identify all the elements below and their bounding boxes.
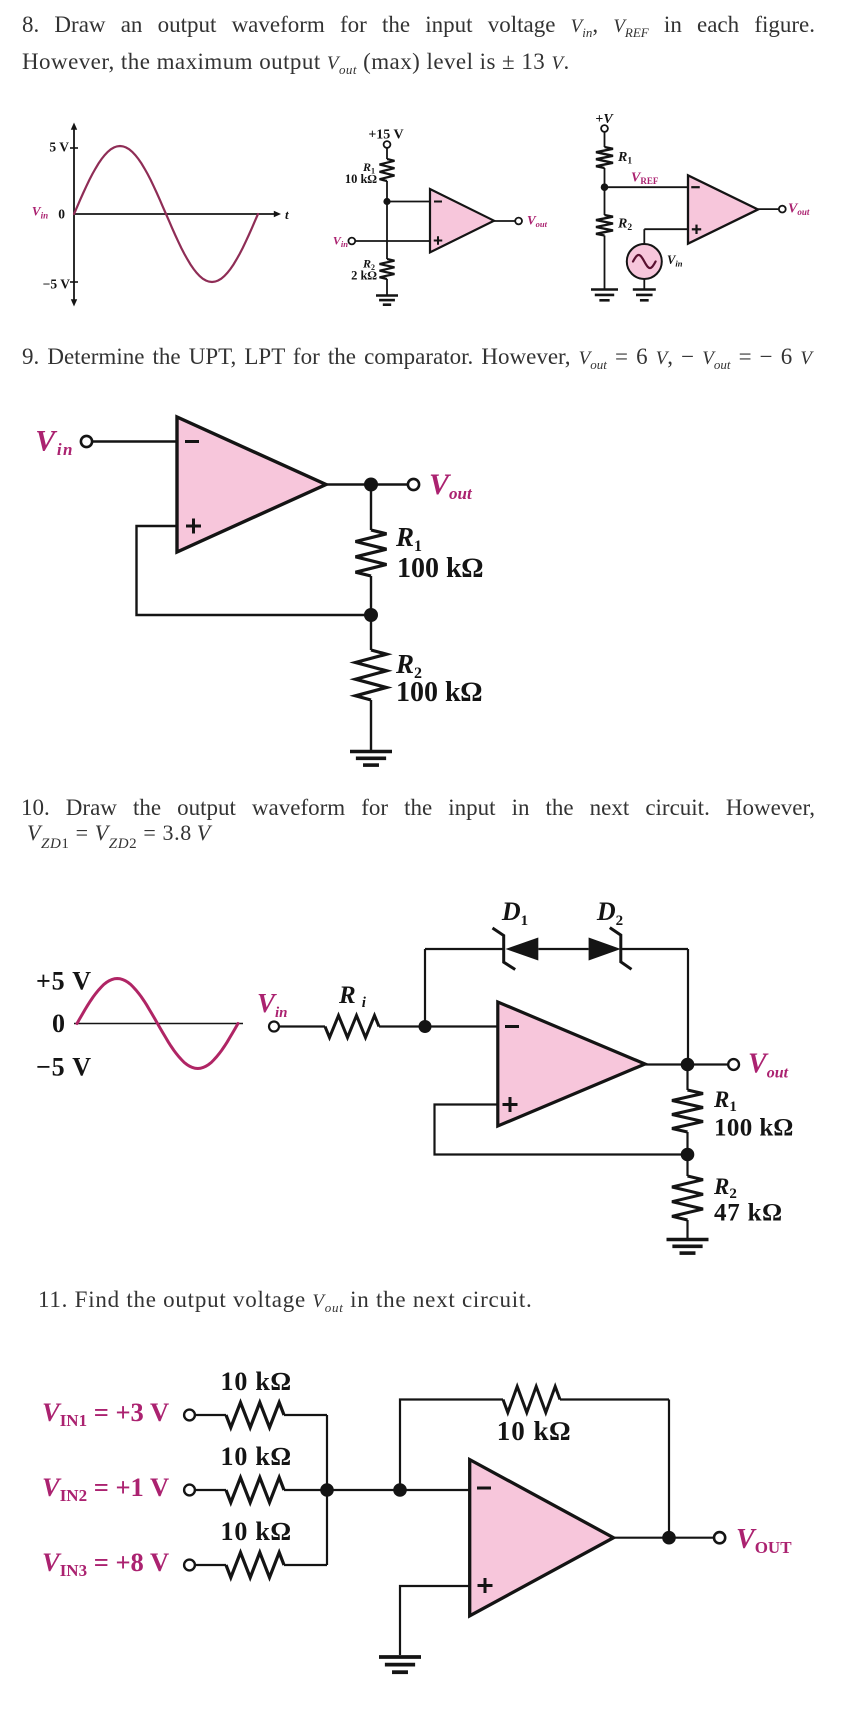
svg-text:+5 V: +5 V <box>36 967 92 996</box>
svg-text:5 V: 5 V <box>49 140 69 155</box>
svg-text:Vin: Vin <box>333 234 348 250</box>
svg-text:Vout: Vout <box>429 468 473 503</box>
svg-text:R1: R1 <box>617 150 632 167</box>
svg-text:0: 0 <box>52 1009 65 1038</box>
svg-text:Vin: Vin <box>257 988 288 1021</box>
svg-text:−5 V: −5 V <box>43 277 71 292</box>
svg-text:D1: D1 <box>501 900 528 929</box>
svg-text:Vin: Vin <box>35 425 74 460</box>
svg-text:Vout: Vout <box>527 213 548 230</box>
svg-text:10 kΩ: 10 kΩ <box>345 172 378 186</box>
svg-text:−5 V: −5 V <box>36 1053 92 1082</box>
svg-text:2 kΩ: 2 kΩ <box>351 269 377 283</box>
svg-text:VIN2 = +1 V: VIN2 = +1 V <box>42 1472 169 1505</box>
svg-text:Vin: Vin <box>32 204 48 221</box>
svg-text:10 kΩ: 10 kΩ <box>497 1416 572 1446</box>
svg-text:Vout: Vout <box>748 1049 789 1082</box>
svg-text:R1: R1 <box>395 522 422 555</box>
svg-text:D2: D2 <box>596 900 623 929</box>
svg-text:+15 V: +15 V <box>368 128 403 143</box>
svg-text:10 kΩ: 10 kΩ <box>221 1442 292 1471</box>
svg-text:R1: R1 <box>713 1087 737 1115</box>
svg-text:Ri: Ri <box>338 982 367 1011</box>
svg-text:10 kΩ: 10 kΩ <box>221 1517 292 1546</box>
svg-text:VOUT: VOUT <box>736 1524 792 1557</box>
svg-text:VIN1 = +3 V: VIN1 = +3 V <box>42 1397 169 1430</box>
svg-text:100 kΩ: 100 kΩ <box>714 1115 793 1142</box>
svg-text:Vin: Vin <box>667 253 683 269</box>
svg-text:R2: R2 <box>713 1174 737 1202</box>
svg-text:VREF: VREF <box>631 171 659 187</box>
svg-text:10 kΩ: 10 kΩ <box>221 1367 292 1396</box>
svg-text:R2: R2 <box>617 217 632 234</box>
svg-text:100 kΩ: 100 kΩ <box>397 553 483 584</box>
svg-text:100 kΩ: 100 kΩ <box>396 677 482 708</box>
svg-text:VIN3 = +8 V: VIN3 = +8 V <box>42 1547 169 1580</box>
svg-text:47 kΩ: 47 kΩ <box>714 1200 782 1227</box>
svg-text:0: 0 <box>58 207 65 222</box>
svg-text:Vout: Vout <box>788 202 810 218</box>
svg-text:t: t <box>285 207 289 222</box>
